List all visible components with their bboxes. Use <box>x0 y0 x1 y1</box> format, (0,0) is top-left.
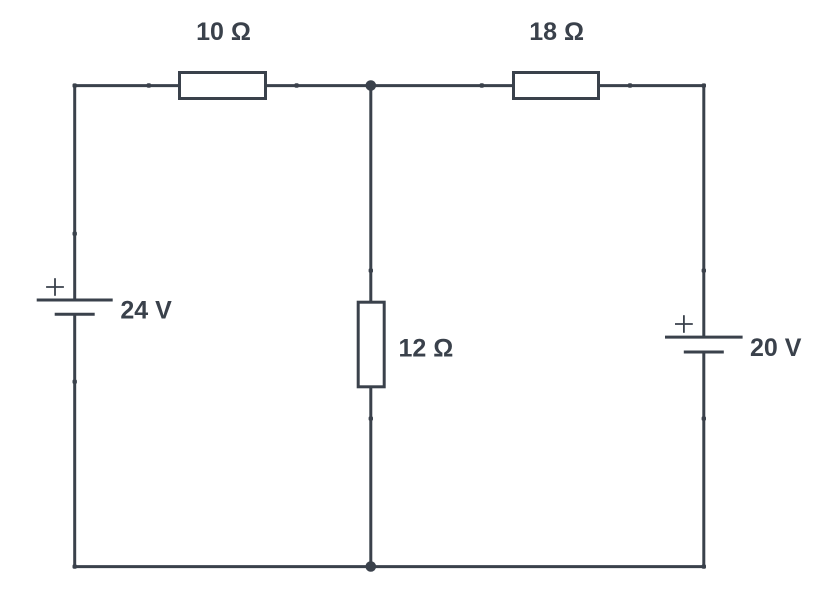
svg-text:24 V: 24 V <box>120 297 172 325</box>
svg-text:12 Ω: 12 Ω <box>399 335 454 363</box>
svg-text:18 Ω: 18 Ω <box>529 18 584 46</box>
svg-text:10 Ω: 10 Ω <box>196 18 251 46</box>
svg-text:20 V: 20 V <box>750 334 802 362</box>
